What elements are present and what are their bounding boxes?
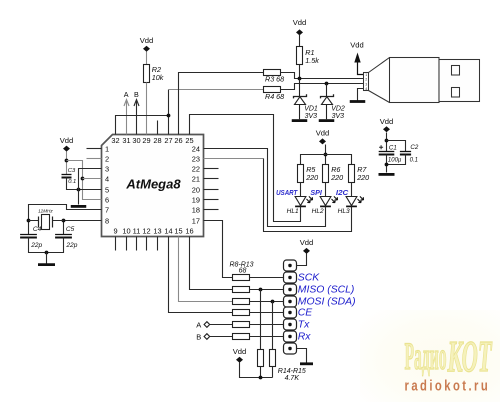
capacitor C2 (0.1) xyxy=(400,151,411,153)
svg-text:3: 3 xyxy=(105,164,109,173)
wire R7 to LED xyxy=(351,183,353,197)
svg-text:radiokot.ru: radiokot.ru xyxy=(405,377,491,394)
resistor R5 xyxy=(298,165,304,183)
wire R15 to Vdd bus xyxy=(272,367,274,378)
wire to HL3 xyxy=(264,159,352,232)
ground (USB) xyxy=(350,100,366,103)
pin 19 stub xyxy=(204,199,219,201)
svg-text:C2: C2 xyxy=(410,144,418,151)
svg-text:18: 18 xyxy=(192,205,200,214)
svg-text:16: 16 xyxy=(185,227,193,236)
svg-text:22p: 22p xyxy=(30,242,42,249)
wire Vdd to C1 xyxy=(386,133,388,152)
svg-text:68: 68 xyxy=(239,267,247,274)
svg-text:I2C: I2C xyxy=(336,188,349,197)
svg-text:0.1: 0.1 xyxy=(410,157,418,163)
resistor R7 xyxy=(349,165,355,183)
pin 21 stub xyxy=(204,178,219,180)
svg-text:29: 29 xyxy=(142,136,150,145)
capacitor C4 xyxy=(20,234,37,236)
wire R3 to USB pin2 (D-) xyxy=(281,73,365,79)
resistor R12 xyxy=(233,322,250,328)
wire R14 to Vdd bus xyxy=(260,367,262,378)
svg-text:B: B xyxy=(134,90,139,99)
wire pin 14 to R11 (CE) xyxy=(169,237,233,313)
svg-text:22: 22 xyxy=(192,164,200,173)
wire pin 32 to pin 27 net xyxy=(116,116,169,135)
wire pin 16 to R9 (MISO) xyxy=(190,237,233,290)
svg-text:12: 12 xyxy=(142,227,150,236)
svg-text:CE: CE xyxy=(298,308,314,319)
svg-text:2: 2 xyxy=(105,154,109,163)
svg-text:1: 1 xyxy=(105,144,109,153)
wire pin 15 to R10 (MOSI) xyxy=(179,237,233,302)
wire R9 to header xyxy=(250,289,284,291)
svg-text:17: 17 xyxy=(192,216,200,225)
wire Vdd pullup bus xyxy=(240,363,273,378)
svg-text:3V3: 3V3 xyxy=(305,113,318,120)
pin 28 stub xyxy=(157,121,159,135)
svg-text:Vdd: Vdd xyxy=(60,136,74,145)
svg-text:100µ: 100µ xyxy=(388,157,402,163)
svg-text:Vdd: Vdd xyxy=(350,41,364,50)
crystal ZQ1 12MHz xyxy=(42,215,50,230)
svg-text:Rx: Rx xyxy=(298,332,312,343)
wire R8 to header xyxy=(250,277,284,279)
node B arrow (to pin 30) xyxy=(136,101,138,135)
wire pin 3 to ground xyxy=(79,169,102,205)
capacitor C3 xyxy=(62,174,72,176)
node A arrow (to pin 31) xyxy=(126,101,128,135)
svg-text:Tx: Tx xyxy=(298,320,310,331)
svg-text:24: 24 xyxy=(192,144,200,153)
power flag Vdd (left) xyxy=(63,146,70,152)
svg-text:220: 220 xyxy=(330,173,343,182)
svg-text:27: 27 xyxy=(164,136,172,145)
wire R12 to header xyxy=(250,324,284,326)
svg-text:Vdd: Vdd xyxy=(300,238,314,247)
wire USB pin4 to ground xyxy=(358,89,365,101)
zener diode VD2 xyxy=(326,84,328,97)
svg-text:28: 28 xyxy=(153,136,161,145)
wire C1 bottom to ground xyxy=(386,155,388,173)
svg-text:MISO (SCL): MISO (SCL) xyxy=(298,285,355,296)
svg-text:HL2: HL2 xyxy=(312,208,324,215)
node B (to Rx) xyxy=(204,334,210,340)
ground (crystal) xyxy=(38,263,55,266)
wire pin 8 to crystal right xyxy=(64,221,102,235)
resistor R6 xyxy=(323,165,329,183)
wire Vdd to pin 6 xyxy=(67,161,102,200)
svg-text:1: 1 xyxy=(365,73,367,77)
wire MISO to R14 xyxy=(260,290,262,350)
svg-text:10: 10 xyxy=(122,227,130,236)
svg-text:5: 5 xyxy=(105,185,109,194)
svg-text:22p: 22p xyxy=(65,242,77,249)
node crystal right xyxy=(62,219,66,223)
pin 22 stub xyxy=(204,168,219,170)
svg-text:6: 6 xyxy=(105,195,109,204)
svg-text:Vdd: Vdd xyxy=(380,117,394,126)
svg-text:10k: 10k xyxy=(152,73,164,82)
LED HL3 xyxy=(346,197,357,206)
svg-text:A: A xyxy=(196,321,201,330)
svg-text:3V3: 3V3 xyxy=(332,113,345,120)
wire MOSI to R15 xyxy=(272,302,274,350)
svg-text:R3 68: R3 68 xyxy=(265,74,284,83)
svg-text:220: 220 xyxy=(305,173,318,182)
wire C2 bottom xyxy=(387,155,406,165)
svg-text:12MHz: 12MHz xyxy=(38,208,53,213)
wire R1 to D- line xyxy=(299,65,301,79)
wire Vdd to R1 xyxy=(299,35,301,47)
zener diode VD1 xyxy=(299,79,301,97)
svg-text:26: 26 xyxy=(174,136,182,145)
resistor R11 xyxy=(233,310,250,316)
wire to ground xyxy=(46,253,48,264)
resistor R10 xyxy=(233,299,250,305)
power flag Vdd (LED bus) xyxy=(319,138,326,144)
resistor R4 xyxy=(264,87,281,93)
node pin4 junction xyxy=(81,177,85,181)
wire Vdd to R2 xyxy=(146,52,148,65)
svg-text:SCK: SCK xyxy=(298,273,320,284)
pin 2 stub xyxy=(87,158,102,160)
ground (VD1) xyxy=(292,119,308,122)
node C1/C2 top xyxy=(385,139,389,143)
resistor R1 xyxy=(297,47,303,65)
svg-text:3: 3 xyxy=(365,82,367,86)
svg-text:C3: C3 xyxy=(68,168,76,174)
svg-text:HL3: HL3 xyxy=(338,208,350,215)
wire pin 17 to R8 (SCK) xyxy=(204,221,233,278)
resistor R8 xyxy=(233,275,250,281)
wire R2 to pin 29 (RESET) xyxy=(146,83,148,135)
wire Vdd to R6 xyxy=(325,145,327,165)
svg-text:14: 14 xyxy=(164,227,172,236)
svg-text:23: 23 xyxy=(192,154,200,163)
node gnd junction xyxy=(77,188,81,192)
connector X2 programming header xyxy=(284,260,297,271)
power flag Vdd (R1) xyxy=(296,29,303,35)
svg-text:1.5k: 1.5k xyxy=(305,56,319,65)
power flag Vdd (header) xyxy=(303,248,310,254)
pin 1 stub xyxy=(87,148,102,150)
ground (C3) xyxy=(71,205,87,208)
node VD2 xyxy=(325,82,329,86)
capacitor C5 xyxy=(55,234,72,236)
svg-text:SPI: SPI xyxy=(310,188,322,197)
wire Vdd to C3 top xyxy=(66,152,68,175)
wire LED supply bus xyxy=(301,155,352,165)
wire pin 25 to HL1 xyxy=(190,115,301,222)
svg-text:30: 30 xyxy=(132,136,140,145)
resistor R14 xyxy=(258,350,264,367)
svg-text:Vdd: Vdd xyxy=(293,18,307,27)
svg-text:MOSI (SDA): MOSI (SDA) xyxy=(298,297,356,308)
svg-text:31: 31 xyxy=(122,136,130,145)
svg-text:4: 4 xyxy=(365,87,367,91)
power flag Vdd (R2) xyxy=(143,46,150,52)
svg-text:AtMega8: AtMega8 xyxy=(125,177,181,192)
svg-text:20: 20 xyxy=(192,185,200,194)
wire to pin 4 xyxy=(83,178,102,180)
ground (header) xyxy=(300,362,313,365)
wire pin 26 riser to R3 xyxy=(179,73,264,135)
resistor R15 xyxy=(270,350,276,367)
wire pin 7 to crystal left xyxy=(29,205,102,235)
svg-text:220: 220 xyxy=(356,173,369,182)
resistor R9 xyxy=(233,287,250,293)
svg-text:4: 4 xyxy=(105,174,109,183)
node MISO/R14 xyxy=(259,288,263,292)
svg-text:13: 13 xyxy=(153,227,161,236)
svg-text:Vdd: Vdd xyxy=(233,347,247,356)
svg-text:7: 7 xyxy=(105,205,109,214)
svg-text:USART: USART xyxy=(276,188,298,197)
svg-text:Vdd: Vdd xyxy=(316,128,330,137)
power flag Vdd (C1/C2) xyxy=(383,126,390,132)
pin 18 stub xyxy=(204,209,219,211)
wire riser to R4 xyxy=(169,89,264,91)
wire R10 to header xyxy=(250,301,284,303)
pin 13 stub xyxy=(157,237,159,251)
wire pin 23 (gray segment) xyxy=(204,158,264,160)
pin 10 stub xyxy=(126,237,128,251)
node A (to Tx) xyxy=(204,322,210,328)
svg-text:HL1: HL1 xyxy=(287,208,299,215)
power flag Vdd (pullups) xyxy=(236,357,243,363)
svg-text:32: 32 xyxy=(111,136,119,145)
IC U1 AtMega8 body xyxy=(102,135,204,237)
svg-text:C1: C1 xyxy=(389,145,397,152)
node crystal gnd xyxy=(45,251,49,255)
wire R4 to USB pin3 (D+) xyxy=(281,84,365,90)
pin 11 stub xyxy=(136,237,138,251)
svg-text:B: B xyxy=(196,333,201,342)
node MOSI/R15 xyxy=(271,300,275,304)
svg-text:Радио: Радио xyxy=(405,333,447,378)
svg-text:C4: C4 xyxy=(33,226,42,233)
node Vdd-C3 junction xyxy=(65,159,69,163)
wire R5 to LED xyxy=(300,183,302,197)
svg-text:R4 68: R4 68 xyxy=(265,92,284,101)
wire B to R13 (Rx) xyxy=(210,336,233,338)
wire C3 bottom to pin 5 xyxy=(67,178,102,190)
wire header pin8 to ground xyxy=(297,349,307,363)
pin 9 stub xyxy=(115,237,117,251)
node C1/C2 bottom xyxy=(385,163,389,167)
resistor R2 xyxy=(144,65,150,83)
resistor R13 xyxy=(233,334,250,340)
svg-text:Vdd: Vdd xyxy=(140,36,154,45)
svg-text:15: 15 xyxy=(174,227,182,236)
wire R11 to header xyxy=(250,312,284,314)
wire A to R12 (Tx) xyxy=(210,324,233,326)
wire R6 to LED xyxy=(325,183,327,197)
svg-text:21: 21 xyxy=(192,174,200,183)
wire R13 to header xyxy=(250,336,284,338)
node LED bus xyxy=(324,153,328,157)
pin 12 stub xyxy=(146,237,148,251)
wire to C2 top xyxy=(387,141,406,152)
svg-text:C5: C5 xyxy=(66,226,75,233)
label C1 polarity + xyxy=(379,145,383,149)
svg-text:VD2: VD2 xyxy=(331,105,345,112)
wire pin 27 riser xyxy=(168,90,170,135)
node crystal left xyxy=(27,219,31,223)
resistor R3 xyxy=(264,70,281,76)
svg-text:4.7K: 4.7K xyxy=(285,375,300,382)
LED HL2 xyxy=(320,197,331,206)
node pin27/pin32 xyxy=(167,114,171,118)
ground (C1/C2) xyxy=(379,173,395,176)
node R1/VD1 xyxy=(298,77,302,81)
svg-text:9: 9 xyxy=(113,227,117,236)
node R14 bottom xyxy=(259,376,263,380)
svg-text:8: 8 xyxy=(105,216,109,225)
svg-text:19: 19 xyxy=(192,195,200,204)
svg-text:2: 2 xyxy=(365,78,367,82)
svg-text:11: 11 xyxy=(133,227,141,236)
svg-text:КОТ: КОТ xyxy=(447,332,493,381)
ground (VD2) xyxy=(319,119,335,122)
LED HL1 xyxy=(295,197,306,206)
wire C4/C5 bottoms xyxy=(29,238,64,253)
wire pin 24 to HL2 xyxy=(204,149,326,227)
svg-text:A: A xyxy=(124,90,129,99)
svg-text:0.1: 0.1 xyxy=(68,179,76,185)
pin 20 stub xyxy=(204,189,219,191)
wire Vdd to header pin1 xyxy=(297,254,307,266)
capacitor C1 (electrolytic 100u) xyxy=(379,151,395,153)
svg-text:VD1: VD1 xyxy=(304,105,318,112)
connector X1 USB-A plug xyxy=(364,58,480,103)
